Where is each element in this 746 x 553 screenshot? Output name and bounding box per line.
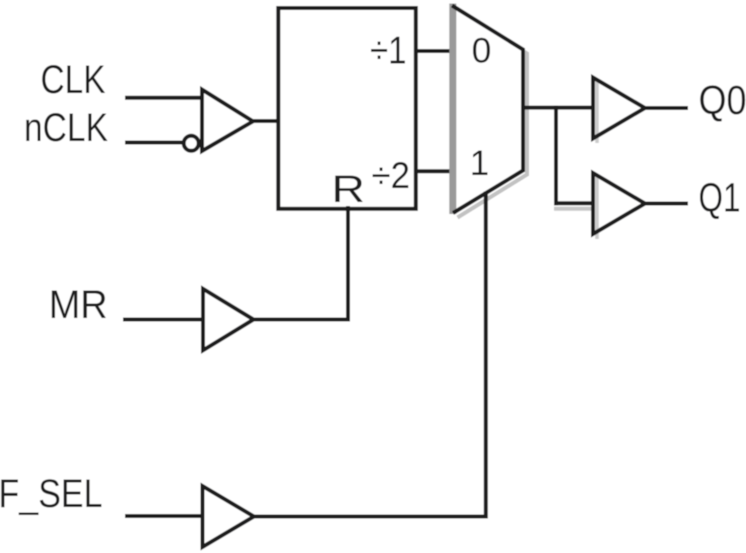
output buffer Q1 xyxy=(593,173,645,234)
wire junction vertical to Q1 branch xyxy=(554,106,558,206)
output buffer Q0 body xyxy=(593,78,645,139)
svg-text:Q1: Q1 xyxy=(699,175,741,221)
svg-text:MR: MR xyxy=(49,283,108,327)
mux left edge (gray) xyxy=(449,4,456,215)
divider block (÷1 / ÷2) xyxy=(278,8,416,209)
wire Q0 output xyxy=(643,106,688,110)
output buffer Q0 xyxy=(593,78,645,139)
svg-text:nCLK: nCLK xyxy=(24,106,108,150)
wire nCLK input xyxy=(125,141,184,145)
input buffer U1 (differential receiver) xyxy=(202,90,253,152)
mux body (white) xyxy=(453,6,523,214)
wire MR input xyxy=(123,318,204,322)
Q1 buffer shadow xyxy=(595,177,599,239)
svg-text:÷1: ÷1 xyxy=(370,30,407,73)
inversion bubble on nCLK input xyxy=(184,136,199,151)
wire CLK input xyxy=(125,96,204,100)
wire ÷2 output to mux input 1 xyxy=(417,169,452,173)
svg-text:Q0: Q0 xyxy=(699,77,746,123)
output buffer Q1 body xyxy=(593,173,645,234)
wire Q1 branch shadow xyxy=(554,207,595,211)
wire Q1 output xyxy=(643,202,688,206)
wire mux output xyxy=(523,106,595,110)
wire F_SEL to mux select xyxy=(252,192,486,517)
F_SEL buffer xyxy=(203,486,255,547)
wire buffer to divider xyxy=(251,119,280,123)
svg-text:F_SEL: F_SEL xyxy=(0,472,103,516)
wire F_SEL input xyxy=(125,514,204,518)
wire ÷1 output to mux input 0 xyxy=(417,49,452,53)
svg-text:1: 1 xyxy=(470,144,489,183)
mux M1 (trapezoid outline) xyxy=(452,6,523,214)
svg-text:÷2: ÷2 xyxy=(372,154,411,196)
MR buffer xyxy=(203,289,254,351)
svg-text:0: 0 xyxy=(472,31,492,71)
wire MR buffer to R pin xyxy=(252,206,349,320)
mux shadow (light gray, offset) xyxy=(457,10,527,218)
svg-text:CLK: CLK xyxy=(41,58,106,102)
Q0 buffer shadow xyxy=(595,81,599,143)
wire Q1 branch horizontal xyxy=(554,201,595,205)
svg-text:R: R xyxy=(332,169,366,211)
